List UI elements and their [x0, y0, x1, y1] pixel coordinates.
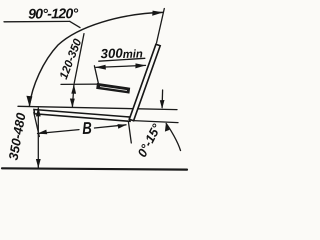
svg-text:B: B: [82, 119, 92, 138]
B left arrowhead: [37, 130, 47, 135]
90-120 leader bend: [70, 21, 80, 27]
300min shelf under text: [99, 58, 145, 61]
120-350 bottom arrowhead (down): [70, 99, 75, 108]
lumbar bar top extension line: [61, 83, 98, 85]
seat plane extension to the right: [134, 121, 179, 123]
120-350 vertical arrow stem: [72, 85, 74, 107]
300min left extension: [94, 66, 98, 85]
seat board: [34, 110, 130, 122]
350-480 bottom arrowhead (down): [36, 159, 41, 168]
B right arrowhead: [118, 124, 127, 129]
300min dimension line: [96, 65, 146, 67]
arrowheads: [26, 11, 169, 169]
lumbar support bar: [96, 83, 130, 94]
backrest axis extension line: [157, 9, 165, 44]
120-350 shelf: [74, 34, 84, 84]
backrest board: [129, 44, 160, 120]
ground line: [2, 168, 187, 169]
svg-text:90°-120°: 90°-120°: [28, 5, 79, 22]
B dimension line (right segment): [95, 125, 127, 128]
350-480 top arrowhead (up): [36, 107, 41, 116]
90-120 text underline: [4, 20, 70, 22]
right gap upper arrow stem: [161, 90, 164, 108]
120-350 top arrowhead (up): [71, 84, 76, 94]
big arc top arrowhead (points right onto backrest ext): [152, 11, 163, 16]
350-480 vertical arrow stem: [37, 108, 39, 168]
0-15 leader arc: [166, 124, 180, 151]
big angle arc: [30, 12, 164, 105]
300min right arrowhead: [135, 63, 145, 68]
B left extension: [34, 113, 40, 137]
B right extension: [128, 121, 131, 143]
big arc bottom arrowhead (points down onto H1): [26, 96, 32, 107]
right gap down arrowhead: [160, 100, 165, 109]
0-15 leader arrowhead (up onto seat ext): [165, 122, 170, 131]
B dimension line (left segment): [38, 130, 80, 134]
horizontal reference line through seat front height: [18, 106, 177, 109]
300min left arrowhead: [95, 65, 106, 70]
